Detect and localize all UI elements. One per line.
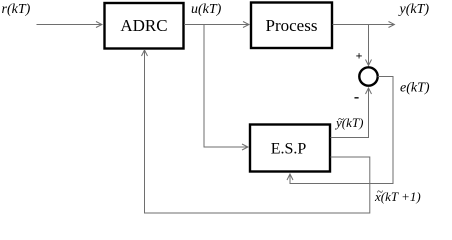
svg-text:u(kT): u(kT) <box>191 2 222 17</box>
block ADRC <box>105 3 184 49</box>
svg-text:E.S.P: E.S.P <box>271 141 307 158</box>
wire y branch down to summing junction plus input <box>368 25 370 66</box>
block Process <box>251 3 332 49</box>
svg-text:+: + <box>356 49 363 63</box>
wire x-tilde feedback from E.S.P to ADRC bottom <box>145 51 370 214</box>
summing junction <box>359 67 377 85</box>
svg-text:r(kT): r(kT) <box>2 2 31 17</box>
wire ADRC to Process <box>184 24 249 26</box>
svg-text:~: ~ <box>338 114 344 126</box>
svg-text:~: ~ <box>377 186 383 198</box>
wire r(kT) input to ADRC <box>37 24 102 26</box>
wire Process to y(kT) output <box>333 24 395 26</box>
svg-text:ADRC: ADRC <box>120 16 167 35</box>
svg-text:e(kT): e(kT) <box>400 81 430 96</box>
svg-text:y(kT): y(kT) <box>398 2 430 17</box>
wire u branch down to E.S.P input <box>204 25 248 148</box>
svg-text:Process: Process <box>266 16 318 35</box>
block E.S.P <box>250 125 330 172</box>
wire e(kT) from summing junction to E.S.P bottom <box>290 77 393 184</box>
wire y-hat from E.S.P to summing junction minus input <box>331 89 369 138</box>
svg-text:-: - <box>354 89 359 106</box>
